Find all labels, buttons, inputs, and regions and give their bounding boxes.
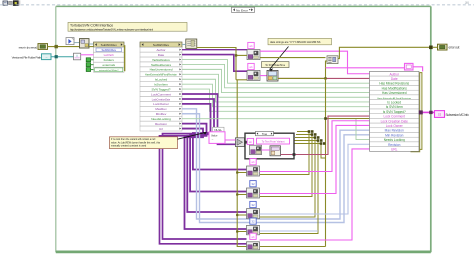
automation refnum constant bbox=[66, 38, 74, 45]
svg-text:→: → bbox=[211, 137, 214, 141]
Automation Open node bbox=[80, 39, 90, 48]
toolbar bottom dashed divider bbox=[0, 4, 474, 6]
variant wire pair jog-left down a bbox=[163, 134, 247, 239]
wire error to invoke node bbox=[89, 46, 94, 48]
wire into cluster constant from left bbox=[326, 67, 405, 69]
toolbar icon 2 bbox=[9, 1, 13, 4]
type constant inside case bbox=[247, 138, 253, 144]
wire path control to Path To String bbox=[51, 56, 74, 58]
int wire MinRev bypass to bundle row 14 bbox=[182, 114, 370, 223]
svg-text:ab: ab bbox=[251, 235, 255, 239]
arrow from label to subVI bbox=[269, 47, 288, 72]
wire Date string to subVI bbox=[260, 75, 267, 77]
wire node1 out to bundle Lock Creation Date bbox=[260, 121, 370, 172]
svg-text:NULL: NULL bbox=[214, 128, 222, 132]
wire bundle output to Subversion MC Info bbox=[419, 111, 435, 113]
variant wire Revision down to VariantToData col 3 bbox=[182, 124, 247, 212]
svg-text:date strings are YYYY-MM-DD HH: date strings are YYYY-MM-DD HH:MM:SS bbox=[270, 40, 321, 44]
svg-text:LockOwner: LockOwner bbox=[153, 102, 169, 106]
wires TF to invoke rows bbox=[91, 60, 94, 70]
svg-text:→: → bbox=[45, 55, 48, 59]
svg-text:Is SVN Tagged?: Is SVN Tagged? bbox=[383, 110, 406, 114]
error trunk down from subVI junction bbox=[325, 78, 327, 246]
svg-text:NeedsLocking: NeedsLocking bbox=[151, 117, 171, 121]
svg-text:Has Mixed Revisions: Has Mixed Revisions bbox=[379, 82, 409, 86]
wire inner case out (lock comment) bbox=[281, 116, 370, 154]
arrow from comment to NULL constant bbox=[178, 132, 207, 139]
error comb wire 5 stub bbox=[295, 144, 326, 159]
error double vertical pair near bundle bbox=[411, 73, 422, 152]
svg-text:32: 32 bbox=[251, 220, 255, 224]
subVI To SVN DateTime icon bbox=[267, 70, 278, 81]
error wire subVI out right and up into format node bbox=[278, 61, 327, 78]
wire automation open to invoke node bbox=[89, 43, 94, 45]
error wire format node out up to error out level bbox=[338, 47, 430, 58]
VariantToData node Date bbox=[247, 70, 260, 80]
svg-text:MinRev: MinRev bbox=[156, 112, 167, 116]
svg-text:Min Revision: Min Revision bbox=[385, 133, 403, 137]
svg-text:HasMixedRevisions: HasMixedRevisions bbox=[151, 65, 172, 67]
svg-text:Subversion MC Info: Subversion MC Info bbox=[446, 113, 469, 117]
terminal Versioned File Folder Path bbox=[42, 54, 52, 60]
wire refnum to Automation Open bbox=[74, 42, 80, 44]
boolean wires staircase property rows 3-9 to bundle rows 3-9 bbox=[182, 60, 370, 112]
error stubs into column nodes bbox=[236, 171, 246, 232]
wire V2D to subVI inside case bbox=[262, 149, 271, 151]
free label comment about null variant bbox=[110, 137, 178, 149]
error comb wire 1 bbox=[260, 132, 309, 175]
svg-text:IsSvnItem: IsSvnItem bbox=[154, 83, 168, 87]
VariantToData column node 5 + type const bbox=[247, 233, 260, 250]
free label date strings are YYYY-MM-DD bbox=[268, 38, 332, 44]
svg-text:No Error: No Error bbox=[236, 8, 248, 12]
svg-text:error in (no error): error in (no error) bbox=[19, 45, 37, 49]
case selector label "No Error" bbox=[232, 7, 255, 12]
svg-text:Lock Creation Date: Lock Creation Date bbox=[381, 119, 409, 123]
svg-text:ab: ab bbox=[249, 140, 253, 144]
svg-text:manually created constant is u: manually created constant is used bbox=[111, 145, 147, 148]
VariantToData column node 4 + type const bbox=[247, 218, 260, 235]
svg-text:Author: Author bbox=[390, 72, 400, 76]
svg-text:ab: ab bbox=[251, 160, 255, 164]
svg-text:Revision: Revision bbox=[388, 143, 400, 147]
close reference node bbox=[186, 39, 197, 48]
error stub to V2D2 bbox=[236, 79, 247, 81]
wire error in to tunnel bbox=[48, 46, 80, 48]
error wire V2D1 out to trunk x=325.5 bbox=[260, 57, 326, 59]
inner case selector bbox=[256, 131, 274, 136]
svg-text:Date: Date bbox=[158, 53, 165, 57]
tunnel error out bbox=[429, 46, 433, 50]
string constant Value bbox=[209, 132, 225, 144]
variant wire LockOwner down to VariantToData col 2 bbox=[182, 104, 247, 192]
svg-text:To Text From Variant: To Text From Variant bbox=[262, 140, 285, 143]
wire Author variant to VariantToData 1 bbox=[182, 49, 247, 51]
terminal Subversion MC Info bbox=[435, 111, 445, 118]
svg-text:SubWCRev: SubWCRev bbox=[101, 43, 118, 47]
svg-text:externalsOutOfDate?: externalsOutOfDate? bbox=[99, 69, 119, 72]
terminal error out bbox=[438, 44, 448, 50]
svg-text:ab: ab bbox=[249, 44, 253, 48]
svg-text:MaxRev: MaxRev bbox=[155, 107, 167, 111]
svg-text:HasModifications: HasModifications bbox=[152, 59, 170, 62]
svg-text:Max Revision: Max Revision bbox=[385, 129, 404, 133]
wire property header to close ref bbox=[182, 43, 186, 45]
svg-text:HaveExternalsAllFixedRevision: HaveExternalsAllFixedRevision bbox=[145, 74, 178, 77]
wire cluster constant into bundle bbox=[413, 67, 423, 72]
VariantToData inside case bbox=[250, 145, 262, 154]
toolbar separator bbox=[19, 0, 21, 5]
wire Date variant down to VariantToData 2 bbox=[182, 55, 247, 72]
inner case pink label box bbox=[257, 138, 290, 144]
svg-text:Is Locked: Is Locked bbox=[387, 101, 401, 105]
boolean constant T/F 1 bbox=[86, 58, 90, 62]
VariantToData node Author bbox=[247, 50, 260, 60]
svg-text:LockCreationDate: LockCreationDate bbox=[152, 98, 171, 101]
error wire from close-ref right and down x=236 bbox=[197, 48, 236, 80]
svg-text:Revision: Revision bbox=[155, 122, 167, 126]
svg-text:SubWCRev: SubWCRev bbox=[153, 43, 170, 47]
svg-text:HasUnversioned: HasUnversioned bbox=[150, 68, 173, 72]
svg-text:True: True bbox=[262, 132, 268, 136]
svg-text:Versioned File Folder Path: Versioned File Folder Path bbox=[12, 56, 42, 60]
error comb wire 3 bbox=[260, 138, 315, 218]
svg-text:Needs Locking: Needs Locking bbox=[384, 138, 405, 142]
error comb wire 4 bbox=[260, 141, 318, 234]
svg-text:Date: Date bbox=[391, 77, 398, 81]
svg-text:32: 32 bbox=[251, 182, 255, 186]
toolbar icon 1 bbox=[3, 1, 8, 5]
VariantToData column node 1 + type const bbox=[247, 159, 260, 176]
svg-text:LockComment: LockComment bbox=[151, 92, 171, 96]
label NULL bbox=[213, 127, 225, 132]
svg-text:SubWCRev: SubWCRev bbox=[101, 48, 116, 52]
error comb junction dots bbox=[308, 130, 326, 145]
inner case structure border bbox=[245, 133, 294, 159]
subVI icon inside case bbox=[270, 146, 281, 156]
error trunk down column x=237 bbox=[237, 80, 247, 247]
variant wire LockComment to Select node bbox=[182, 94, 236, 144]
error comb wire 2 bbox=[260, 135, 312, 197]
wire select out to inner case tunnel bbox=[245, 141, 248, 143]
type constant string for Date bbox=[248, 63, 254, 69]
tunnel path bbox=[55, 55, 58, 58]
wire NULL to select bbox=[225, 139, 236, 141]
Path To String node bbox=[74, 53, 81, 60]
free label TortoiseSVN COM Interface bbox=[68, 22, 187, 31]
svg-text:Have Externals All Fixed Revis: Have Externals All Fixed Revisions bbox=[377, 97, 412, 100]
svg-text:value. As LabVIEW doesnt handl: value. As LabVIEW doesnt handle this wel… bbox=[111, 141, 161, 144]
svg-text:Lock Comment: Lock Comment bbox=[384, 115, 406, 119]
wire node5 out to bundle URL bbox=[260, 149, 370, 240]
cluster constant above bundle bbox=[405, 63, 414, 70]
svg-text:Has Unversioned: Has Unversioned bbox=[382, 91, 407, 95]
svg-text:To SVN DateTime: To SVN DateTime bbox=[265, 64, 286, 67]
Select node bbox=[236, 138, 245, 147]
svg-text:ab: ab bbox=[249, 65, 253, 69]
svg-text:error out: error out bbox=[449, 46, 460, 50]
svg-text:JKI: JKI bbox=[465, 1, 470, 5]
error wire long horizontal y=118.5 bbox=[326, 118, 370, 120]
invoke node SubWCRev GetWCInfo header bbox=[94, 42, 125, 47]
wire path string to invoke wcPath bbox=[81, 54, 94, 56]
variant wire LockCreationDate down to VariantToData col 1 bbox=[182, 99, 247, 170]
wire Author string out bbox=[260, 51, 370, 74]
svg-text:TortoiseSVN COM Interface: TortoiseSVN COM Interface bbox=[70, 23, 113, 27]
toolbar icon 3 bbox=[13, 1, 18, 6]
svg-text:32: 32 bbox=[251, 203, 255, 207]
svg-text:If no lock then the variant wi: If no lock then the variant will contain… bbox=[111, 138, 156, 141]
variant wire pair jog-left down b bbox=[160, 136, 247, 244]
svg-text:SVN Tagged?: SVN Tagged? bbox=[151, 87, 170, 91]
svg-text:wcPath: wcPath bbox=[104, 53, 114, 57]
svg-text:Author: Author bbox=[156, 48, 165, 52]
terminal error in bbox=[38, 44, 48, 50]
wire error down invoke right edge bbox=[124, 45, 126, 71]
svg-text:☷: ☷ bbox=[438, 113, 441, 117]
error bottom horizontal to node5 bbox=[260, 246, 326, 248]
invoke node rows bbox=[94, 47, 125, 72]
wire node4 out stub bbox=[260, 230, 319, 232]
boolean constant T/F 3 bbox=[86, 68, 90, 72]
type constant string for Author bbox=[248, 42, 254, 48]
subVI To SVN DateTime label bbox=[262, 62, 290, 68]
svg-text:Url: Url bbox=[159, 127, 163, 131]
case structure "No Error" border bbox=[56, 6, 431, 252]
error stub to V2D1 bbox=[236, 54, 247, 56]
svg-text:URL: URL bbox=[391, 148, 398, 152]
property node rows bbox=[140, 47, 182, 131]
wire node2 out to bundle Lock Owner bbox=[260, 125, 370, 193]
bundle by name node bbox=[370, 71, 420, 151]
wire node3 out to bundle Revision bbox=[260, 144, 370, 214]
svg-text:http://tortoisesvn.net/docs/re: http://tortoisesvn.net/docs/release/Tort… bbox=[70, 27, 153, 31]
boolean constant T/F 2 bbox=[86, 63, 90, 67]
svg-text:Lock Owner: Lock Owner bbox=[386, 124, 404, 128]
svg-text:externals: externals bbox=[102, 63, 115, 67]
svg-text:Folders: Folders bbox=[104, 58, 115, 62]
boolean wire NeedsLocking to bundle row 15 bbox=[182, 119, 370, 140]
variant wire Url down to VariantToData col 4 bbox=[182, 129, 247, 229]
VariantToData column node 3 + type const bbox=[247, 201, 260, 218]
tunnel error in bbox=[55, 45, 58, 48]
svg-text:Has Modifications: Has Modifications bbox=[382, 86, 408, 90]
svg-text:IsLocked: IsLocked bbox=[155, 78, 168, 82]
format node bbox=[327, 56, 338, 64]
wire tunnel to error out terminal bbox=[433, 46, 438, 48]
int wire MaxRev bypass to bundle row 13 bbox=[182, 109, 370, 219]
wire date string result to bundle row 2 bbox=[278, 77, 370, 79]
VariantToData column node 2 + type const bbox=[247, 181, 260, 198]
svg-text:Is SVN Item: Is SVN Item bbox=[386, 105, 403, 109]
property node SubWCRev header bbox=[140, 42, 182, 47]
